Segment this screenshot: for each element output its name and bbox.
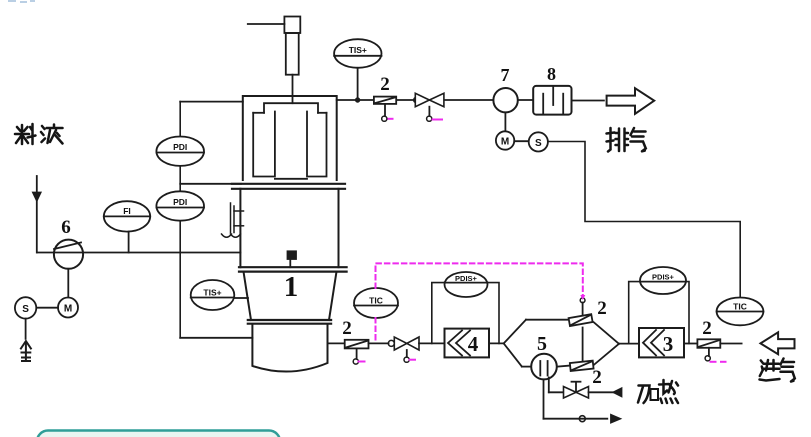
svg-text:5: 5 xyxy=(537,333,547,355)
damper valve 2 exhaust xyxy=(374,97,396,122)
flange band middle xyxy=(239,267,347,271)
motor M of fan 7 xyxy=(496,112,514,149)
text 进气 air inlet xyxy=(760,359,795,382)
spray flag nozzle xyxy=(288,251,297,267)
wire: product discharge pipe xyxy=(328,342,345,344)
svg-text:PDI: PDI xyxy=(173,142,187,152)
hand signal glyph xyxy=(21,341,31,361)
svg-text:S: S xyxy=(535,138,542,149)
svg-text:6: 6 xyxy=(61,217,71,238)
wire: heating branch xyxy=(549,378,564,393)
filter housing (bag filter chamber) xyxy=(243,96,337,180)
instrument FI xyxy=(104,201,150,252)
svg-text:2: 2 xyxy=(597,298,607,319)
wire: middle pressure tap xyxy=(180,183,241,185)
wire: pipe split to heater 3 xyxy=(619,343,639,345)
spray lance xyxy=(222,203,244,237)
flange band lower xyxy=(248,320,331,324)
instrument TIS+ bed temperature xyxy=(191,280,248,310)
wire: PDIS+ tap loop heater 3 xyxy=(629,282,689,344)
text 加热 heating xyxy=(638,380,678,403)
circulation fan 5 xyxy=(531,354,557,380)
bag filter header xyxy=(253,103,326,113)
wire: feed line xyxy=(37,252,240,254)
damper valve bypass lower xyxy=(570,361,594,371)
instrument TIS+ exhaust xyxy=(334,39,381,102)
svg-text:TIC: TIC xyxy=(733,302,747,312)
damper valve 2 bypass upper xyxy=(569,314,593,326)
pump 6 xyxy=(54,240,83,269)
switch S of fan 7 xyxy=(514,132,548,151)
svg-text:PDIS+: PDIS+ xyxy=(652,273,675,282)
wire: bottom pressure tap xyxy=(180,337,252,339)
wire: exhaust pipe xyxy=(337,99,604,102)
svg-text:3: 3 xyxy=(663,332,674,356)
wire: discharge drop line xyxy=(544,379,621,422)
wire: pipe heater 4 to split xyxy=(489,342,504,344)
feed arrow xyxy=(33,176,41,253)
svg-text:4: 4 xyxy=(468,332,479,356)
teal band bottom xyxy=(37,431,280,437)
svg-text:PDIS+: PDIS+ xyxy=(455,274,478,283)
heater 3 xyxy=(639,328,684,357)
svg-text:S: S xyxy=(22,304,29,315)
wire: upper pressure tap xyxy=(180,101,243,103)
butterfly valve inlet air xyxy=(388,337,419,362)
svg-text:2: 2 xyxy=(592,367,602,388)
svg-text:TIS+: TIS+ xyxy=(349,45,367,55)
bag filter right bag xyxy=(307,112,327,177)
svg-text:7: 7 xyxy=(501,65,510,85)
signal fragments pink xyxy=(359,119,726,362)
instrument PDIS+ heater 4 xyxy=(445,272,488,297)
heater 4 xyxy=(445,329,490,358)
svg-text:TIS+: TIS+ xyxy=(203,288,221,298)
svg-text:M: M xyxy=(501,137,509,148)
bag filter center channel bottom xyxy=(275,178,307,180)
expansion chamber 1 walls xyxy=(240,189,338,267)
instrument PDI lower xyxy=(156,191,204,220)
damper valve 2 discharge xyxy=(345,340,369,364)
wire: damper link xyxy=(582,328,584,362)
exhaust outlet arrow xyxy=(607,88,655,114)
bypass duct upper branch xyxy=(504,320,619,344)
motor M of pump 6 xyxy=(58,269,78,318)
silencer 8 xyxy=(533,86,571,115)
wire: pipe to valve xyxy=(369,342,389,344)
svg-text:FI: FI xyxy=(123,206,131,216)
top-left artifact xyxy=(8,1,35,2)
globe valve 2 heating xyxy=(564,382,589,398)
wire: air line to shaker cylinder xyxy=(248,23,285,25)
wire: PDI riser xyxy=(179,102,181,338)
svg-text:M: M xyxy=(64,304,72,315)
wire: damper actuator stem xyxy=(580,298,585,315)
signal line TIC dashed pink xyxy=(376,263,583,342)
bag filter left bag xyxy=(253,112,275,177)
wire: inlet pipe stub xyxy=(720,343,741,345)
instrument TIC recirculation xyxy=(354,288,398,318)
cone section of dryer 1 xyxy=(244,272,337,320)
svg-text:1: 1 xyxy=(284,271,299,303)
text 排气 exhaust xyxy=(607,128,646,152)
svg-text:8: 8 xyxy=(547,64,556,84)
product container bowl xyxy=(252,324,327,372)
signal arrowhead pink xyxy=(580,295,585,300)
damper valve 2 air inlet xyxy=(697,339,720,361)
wire: pipe heater 3 to damper xyxy=(684,343,697,345)
butterfly valve exhaust xyxy=(414,93,444,121)
svg-text:PDI: PDI xyxy=(173,197,187,207)
svg-text:2: 2 xyxy=(380,74,390,95)
wire: signal line S to TIC xyxy=(548,142,740,298)
text 料液 feed liquid xyxy=(15,124,63,144)
flange band upper xyxy=(232,184,345,189)
wire: shaker rod xyxy=(292,75,294,104)
bypass duct lower branch xyxy=(504,343,619,366)
air inlet arrow xyxy=(761,332,795,354)
switch S of pump 6 xyxy=(15,297,58,339)
instrument PDI upper xyxy=(156,137,204,166)
wire: pipe valve to heater 4 xyxy=(419,342,445,344)
fan 7 xyxy=(493,88,517,112)
instrument TIC inlet xyxy=(717,298,764,326)
svg-text:TIC: TIC xyxy=(369,296,383,306)
svg-text:2: 2 xyxy=(702,318,712,339)
svg-text:2: 2 xyxy=(342,318,352,339)
instrument PDIS+ heater 3 xyxy=(640,267,686,294)
wire: heating supply with arrow xyxy=(589,388,622,396)
shaker air cylinder xyxy=(284,17,300,75)
wire: PDIS+ tap loop heater 4 xyxy=(432,283,499,344)
